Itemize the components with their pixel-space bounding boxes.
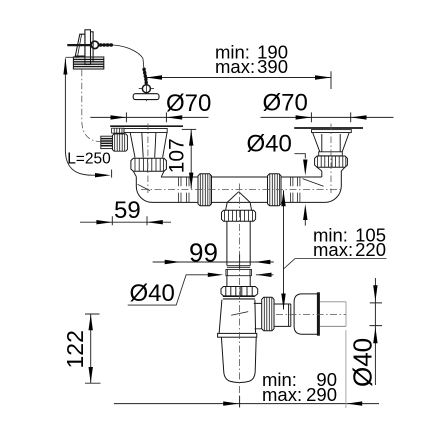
dim 99 line [153, 261, 274, 263]
plug knob [142, 85, 150, 93]
left strainer overflow inlet thread [101, 136, 113, 148]
dim O70 right ticks [311, 112, 350, 122]
dim min190/max390 line [146, 77, 331, 79]
trap outlet nut [262, 297, 274, 330]
chain beads horizontal [99, 43, 114, 46]
svg-text:107: 107 [166, 138, 189, 173]
chain cord curve [113, 45, 143, 58]
dim min190 left arrow [146, 75, 162, 79]
wall pipe end [345, 302, 347, 327]
left arm joint ticks [179, 178, 189, 203]
plug stopper stem [145, 100, 147, 102]
plug knob cross ticks [139, 84, 154, 94]
dim O40br ticks [370, 303, 383, 326]
left strainer flange [110, 125, 183, 127]
svg-text:390: 390 [257, 56, 288, 77]
dim 107 line [190, 129, 192, 188]
dim O40br line [374, 278, 376, 385]
overflow fitting body plates [75, 30, 93, 65]
centerline horizontal arm [141, 189, 341, 191]
dim bottom center tick [239, 396, 241, 408]
tailpipe lower [227, 276, 250, 287]
dim min105 line [283, 190, 285, 309]
trap seal ring [223, 296, 255, 299]
left strainer big nut [131, 158, 167, 171]
dim O70 left ticks [126, 112, 166, 122]
dim O40low right arrow [256, 273, 272, 277]
tailpipe sleeve [226, 269, 252, 275]
svg-text:Ø40: Ø40 [247, 130, 292, 157]
dim min105 up arrow [281, 190, 285, 206]
tee right nut [268, 174, 282, 206]
svg-text:max:: max: [215, 56, 255, 77]
trap body internal line [231, 312, 248, 316]
dim L250 up arrow [63, 58, 67, 75]
right strainer big nut [315, 156, 348, 167]
svg-text:Ø70: Ø70 [263, 90, 308, 117]
svg-text:max:: max: [313, 239, 353, 260]
overflow hose centerline [82, 70, 101, 142]
chain cord down [142, 58, 145, 67]
tee funnel [226, 192, 252, 211]
centerline tailpipe [239, 184, 241, 408]
dim 59 line [80, 221, 171, 223]
trap outlet branch [254, 303, 262, 328]
svg-text:290: 290 [306, 384, 337, 405]
dim O40br arrows [373, 285, 377, 343]
dim 99 center tick [239, 255, 241, 269]
dim O40low leader: underline, slant, line [128, 275, 211, 305]
dim O70 right arrows [296, 115, 367, 119]
wall bell [294, 292, 318, 335]
dim 122 arrows [89, 314, 93, 383]
dim O40mid down arrow [303, 160, 307, 176]
dim 107 arrows [189, 130, 193, 189]
dim min105 text underline [295, 258, 387, 260]
svg-text:Ø40: Ø40 [130, 280, 175, 307]
left strainer nut top behind flange [112, 128, 124, 133]
dim 59 ticks [112, 216, 147, 225]
svg-text:Ø40: Ø40 [348, 338, 378, 387]
dim 59 arrows [96, 220, 162, 224]
svg-text:122: 122 [62, 330, 88, 368]
tee bottom nut [222, 210, 256, 221]
dim bottom arrows [223, 401, 362, 405]
right elbow [303, 171, 342, 202]
dim bottom right extension [345, 330, 347, 408]
dim 122 line [90, 314, 92, 383]
dim O40low right line [256, 274, 274, 276]
dim O70 left line [90, 116, 208, 118]
overflow fitting lower stack [73, 57, 103, 69]
left strainer under-plate [124, 129, 167, 133]
dim O70 left arrows [111, 115, 183, 119]
svg-text:99: 99 [189, 238, 218, 268]
dim 99 arrows [165, 260, 271, 264]
right strainer cup lip [319, 152, 343, 156]
right strainer flange [294, 127, 363, 129]
tailpipe joint lines [227, 266, 250, 268]
dim min190 right arrow [315, 75, 331, 79]
dim L250 top ref [65, 56, 79, 58]
right arm pipe [281, 177, 325, 202]
dim O70 right line [261, 116, 394, 118]
trap outlet stub pipe [274, 304, 291, 326]
right strainer reducer neck [317, 167, 345, 171]
dim O40mid leader [295, 154, 306, 159]
dim min105 leader slant [284, 259, 296, 269]
left strainer inlet nut [112, 134, 127, 151]
svg-text:max:: max: [262, 384, 302, 405]
left strainer cup [130, 133, 167, 158]
trap upper body [219, 300, 256, 334]
dim 122 ticks [85, 314, 101, 383]
svg-text:Ø70: Ø70 [166, 90, 211, 117]
trap top nut [221, 287, 258, 296]
centerline outlet [276, 314, 346, 316]
right strainer cup [313, 133, 350, 152]
trap cup [221, 337, 256, 382]
dim L250 right arrow [95, 173, 111, 177]
dim bottom line [114, 403, 379, 405]
tee left nut [198, 174, 212, 206]
dim min105 down arrow [281, 294, 285, 310]
overflow knob [91, 41, 98, 48]
dim 107 top tick [182, 128, 196, 130]
dim L250 line [65, 59, 103, 176]
svg-text:59: 59 [114, 197, 141, 224]
tailpipe upper [227, 221, 250, 265]
plug stopper [133, 94, 159, 100]
overflow pin rod [67, 44, 91, 46]
chain beads vertical [142, 68, 147, 85]
left strainer reducer neck [133, 171, 164, 176]
svg-text:220: 220 [355, 239, 386, 260]
dim O40low left arrow [208, 273, 224, 277]
left elbow [136, 177, 198, 203]
svg-text:L=250: L=250 [67, 151, 111, 168]
tee body pipe [212, 177, 268, 202]
dim O40mid lower stub [304, 220, 306, 226]
centerline left strainer [147, 124, 149, 194]
dim O40mid up arrow [303, 204, 307, 220]
trap shoulder [218, 333, 257, 337]
dim min190 right tick [330, 71, 332, 89]
dim L250 tick [111, 170, 113, 178]
wall pipe [320, 302, 346, 327]
right strainer under-plate [312, 130, 352, 133]
centerline right strainer [330, 124, 332, 194]
right arm joint ticks [290, 178, 300, 203]
